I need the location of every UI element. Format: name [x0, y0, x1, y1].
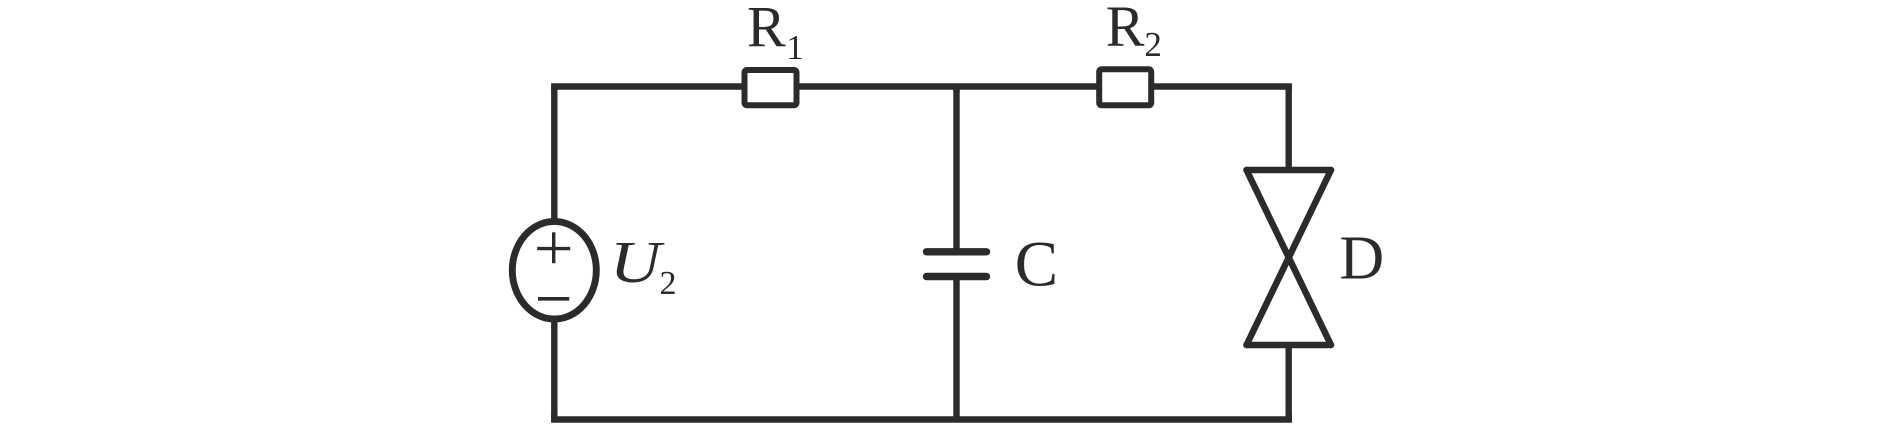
wire bottom rail (bottom net) — [554, 414, 1288, 420]
voltage source U2 plus sign — [537, 232, 570, 263]
capacitor C top plate — [927, 248, 987, 255]
node junction of C branch with top rail — [953, 87, 959, 93]
wire middle branch lower (capacitor bottom plate to bottom rail) — [953, 277, 959, 420]
wire left branch lower (source - to bottom rail) — [551, 316, 557, 420]
voltage source U2 (ellipse body) — [512, 221, 596, 319]
wire top rail (node between R1/R2 and source top) — [554, 87, 1288, 93]
svg-text:1: 1 — [786, 28, 804, 67]
resistor R1 (box) — [745, 70, 797, 105]
wire middle branch upper (top rail to capacitor top plate) — [953, 87, 959, 252]
svg-text:C: C — [1015, 229, 1058, 301]
svg-text:2: 2 — [660, 265, 677, 302]
voltage source U2 minus sign — [538, 297, 569, 301]
capacitor C bottom plate — [927, 273, 987, 280]
wire right branch lower (diode D bottom to bottom rail) — [1285, 343, 1291, 420]
resistor R2 (box) — [1099, 69, 1151, 105]
wire right branch upper (top rail to diode D top) — [1285, 87, 1291, 173]
diode D (bidirectional bowtie symbol) — [1247, 170, 1332, 345]
svg-text:U: U — [610, 229, 665, 295]
svg-text:R: R — [747, 0, 786, 60]
wire left branch upper (top rail to source +) — [551, 87, 557, 227]
svg-text:2: 2 — [1144, 25, 1162, 64]
svg-text:R: R — [1106, 0, 1145, 59]
svg-text:D: D — [1339, 224, 1384, 292]
